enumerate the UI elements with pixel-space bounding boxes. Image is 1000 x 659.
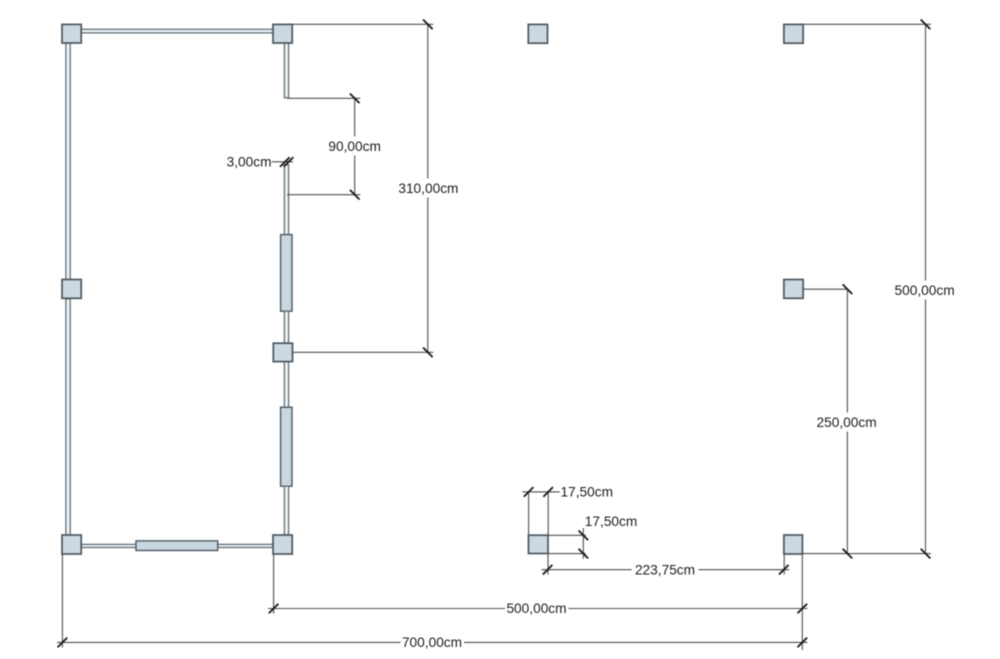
dim 310 top extension from P2 <box>292 23 433 25</box>
wall panel 2 (vertical beam) <box>281 407 292 486</box>
tick 250 top <box>843 284 853 294</box>
dim 17.5a horizontal line <box>522 491 559 493</box>
wall interior segment C (panel 1 to post C) <box>284 311 288 343</box>
dim 223.75 right extension down <box>783 554 785 575</box>
tick 90 top <box>350 94 360 104</box>
wall left exterior lower (ML to BL) <box>66 299 70 535</box>
post BS bottom-small <box>529 535 549 553</box>
dim 17.5a left extension down <box>528 492 530 535</box>
tick 223.75 right <box>779 565 789 575</box>
wall panel bottom (beam in bottom wall) <box>136 541 218 551</box>
post MR mid-right <box>784 280 803 299</box>
svg-text:17,50cm: 17,50cm <box>585 514 638 529</box>
dim 17.5b vertical line <box>582 528 584 559</box>
post P2 top-mid <box>273 24 292 43</box>
tick 700 left <box>58 638 68 648</box>
svg-text:700,00cm: 700,00cm <box>402 635 462 650</box>
svg-text:223,75cm: 223,75cm <box>635 563 695 578</box>
wall panel 1 (vertical beam) <box>281 235 292 312</box>
dim 17.5a right extension down <box>547 492 549 535</box>
wall interior segment A (below P2, to opening) <box>284 43 288 98</box>
wall interior segment B (opening end to panel 1) <box>284 165 288 235</box>
svg-text:90,00cm: 90,00cm <box>328 139 381 154</box>
wall bottom exterior (BL to BM) <box>81 544 273 547</box>
wall interior segment D (post C to panel 2) <box>284 362 288 408</box>
tick 17.5b bottom <box>579 549 589 559</box>
svg-text:17,50cm: 17,50cm <box>561 485 614 500</box>
tick 500 bottom left <box>269 604 279 614</box>
dim 500 bottom left extension down from BM <box>273 554 275 613</box>
dim 700 right extension down from BR <box>801 554 803 650</box>
svg-text:500,00cm: 500,00cm <box>506 601 566 616</box>
dim 3 label dash <box>272 161 293 163</box>
svg-text:310,00cm: 310,00cm <box>398 181 458 196</box>
dim 700 horizontal line <box>57 641 808 643</box>
dim 310 bottom extension from post C <box>293 351 434 353</box>
tick 17.5a right <box>543 487 553 497</box>
dim 310 vertical line <box>427 24 429 352</box>
tick 500 right top <box>921 20 931 30</box>
post BL bottom-left <box>62 535 81 554</box>
post P3 top-third <box>528 24 547 43</box>
dim 500/250 bottom shared extension <box>803 553 932 555</box>
post BR bottom-right <box>784 535 803 554</box>
label backgrounds <box>327 137 956 651</box>
dim 500 right top extension from P4 <box>803 23 931 25</box>
dim 223.75 horizontal line <box>542 569 790 571</box>
tick 223.75 left <box>543 565 553 575</box>
svg-text:3,00cm: 3,00cm <box>227 155 272 170</box>
tick 90 bottom <box>350 190 360 200</box>
svg-text:250,00cm: 250,00cm <box>817 415 877 430</box>
tick 310 bottom <box>423 348 433 358</box>
posts <box>62 24 803 554</box>
post P4 top-right <box>784 24 803 43</box>
dim 700 left extension down from BL <box>61 554 63 647</box>
dim 17.5b top extension from BS <box>548 534 585 536</box>
tick 3 double slash left <box>280 157 290 167</box>
wall interior segment E (panel 2 to BM) <box>284 486 288 535</box>
dim 17.5b bottom extension from BS <box>548 553 585 555</box>
dim 90 vertical line <box>354 98 356 194</box>
dim 250 top extension from MR <box>803 288 847 290</box>
post C center <box>273 343 292 361</box>
tick 500 right bottom <box>921 549 931 559</box>
tick 17.5b top <box>579 531 589 541</box>
svg-text:500,00cm: 500,00cm <box>895 283 955 298</box>
dim 223.75 left extension down <box>547 554 549 575</box>
tick 17.5a left <box>524 487 534 497</box>
wall left exterior upper (P1 to ML) <box>66 43 70 280</box>
post BM bottom-mid <box>273 535 292 554</box>
dim 500 bottom horizontal line <box>268 608 808 610</box>
dim 90 bottom extension <box>287 194 360 196</box>
tick 700 right <box>798 638 808 648</box>
tick 250 bottom <box>843 549 853 559</box>
dim 90 top extension <box>287 97 360 99</box>
post ML mid-left <box>62 280 81 299</box>
wall top exterior (P1 to P2) <box>81 29 273 33</box>
tick 310 top <box>423 20 433 30</box>
tick 500 bottom right <box>798 604 808 614</box>
tick 3 double slash right <box>284 157 294 167</box>
post P1 top-left <box>62 24 81 43</box>
dim 500 right vertical line <box>925 24 927 553</box>
dim 250 vertical line <box>846 289 848 553</box>
